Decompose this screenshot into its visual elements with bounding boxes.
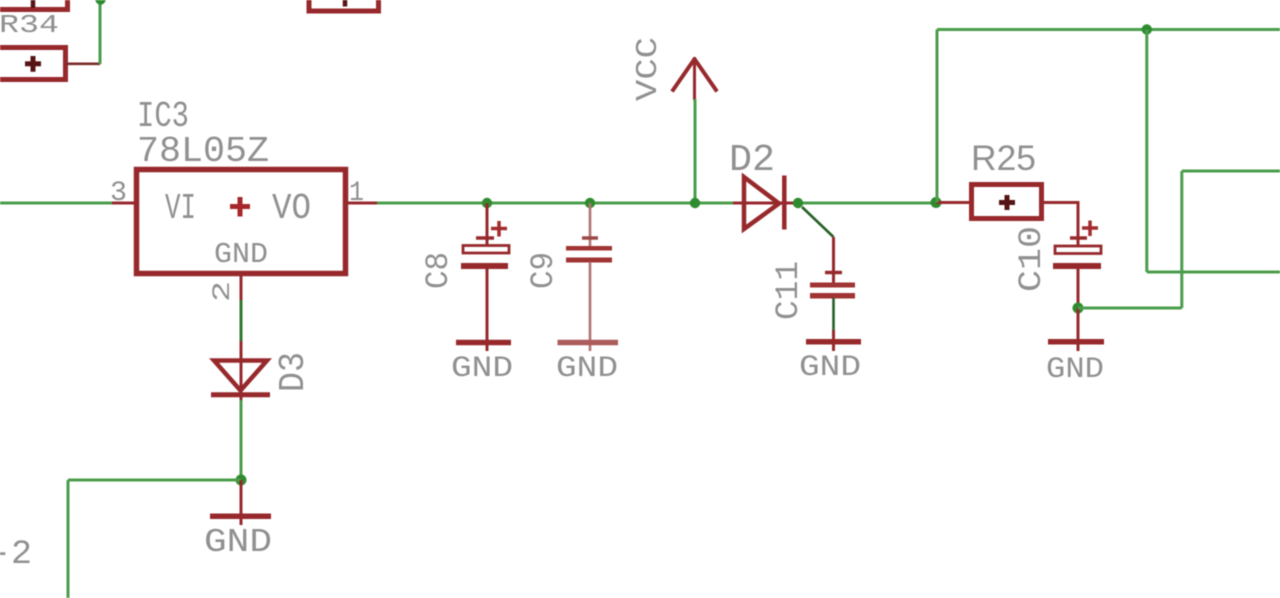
IC3 pin 1 stub — [343, 202, 377, 205]
svg-text:R25: R25 — [971, 139, 1036, 178]
diode D2 anode pin — [733, 202, 744, 205]
svg-text:C8: C8 — [420, 252, 457, 289]
diode D3 cathode bar — [211, 392, 270, 397]
capacitor C10 positive plate — [1055, 246, 1101, 254]
svg-text:VCC: VCC — [631, 37, 666, 101]
capacitor C8 plus mark — [491, 221, 507, 237]
diode D3 triangle — [214, 361, 267, 391]
wire (IC3 pin 2 to D3) — [240, 300, 243, 344]
junction (C10 ground node) — [1073, 303, 1084, 314]
diode D2 triangle — [744, 177, 779, 229]
ground symbol below C9 — [558, 340, 619, 346]
capacitor C11 plate 2 — [810, 293, 855, 299]
resistor R25 left pin — [936, 201, 969, 204]
junction (C8 node) — [482, 198, 492, 208]
capacitor C9 bottom stub — [589, 262, 592, 351]
svg-text:C11: C11 — [770, 261, 807, 320]
svg-text:R34: R34 — [0, 10, 59, 40]
diode D2 pin through triangle — [744, 202, 786, 205]
wire (right riser up) — [1180, 171, 1183, 308]
svg-text:GND: GND — [799, 351, 861, 385]
svg-text:GND: GND — [1046, 353, 1104, 387]
capacitor C10 bottom stub — [1077, 269, 1080, 308]
capacitor C10 negative plate — [1053, 263, 1101, 269]
wire (IC3 pin 1 to D2 anode) — [377, 202, 733, 205]
svg-text:D3: D3 — [273, 352, 314, 392]
svg-text:C10: C10 — [1013, 226, 1050, 292]
ground symbol below C10 — [1077, 308, 1080, 351]
capacitor C10 plus tick on stub — [1070, 236, 1087, 240]
junction (D2 cathode node) — [793, 198, 803, 208]
diode D3 pin stubs — [240, 390, 243, 403]
resistor R34 plus mark (cut off) — [31, 0, 36, 8]
supply symbol VCC arrow — [672, 57, 717, 100]
resistor box (partial, left edge) — [0, 48, 66, 80]
wire (C10 node to right riser) — [1078, 307, 1182, 310]
IC3 pin 3 stub — [112, 202, 139, 205]
svg-text:-2: -2 — [0, 536, 32, 574]
resistor plus mark (cut off) — [343, 0, 348, 7]
wire (vertical from top junction) — [1145, 30, 1148, 273]
capacitor C9 top stub — [589, 203, 592, 246]
voltage regulator IC3 box — [137, 170, 346, 274]
capacitor C8 negative plate — [461, 263, 508, 269]
IC3 pin 2 stub — [240, 272, 243, 303]
capacitor C11 top stub — [832, 237, 835, 284]
capacitor C8 plus tick on stub — [476, 236, 494, 240]
junction (VCC node) — [690, 198, 700, 208]
wire (D2 cathode to R25 junction) — [798, 202, 937, 205]
junction (C9 node) — [585, 198, 595, 208]
resistor R25 plus mark — [999, 195, 1015, 210]
capacitor C9 plus tick on stub — [582, 236, 598, 240]
diode D2 cathode bar — [782, 176, 787, 230]
resistor R25 right pin to C10 — [1044, 203, 1078, 248]
ground symbol below D3 — [240, 480, 243, 525]
capacitor C8 bottom stub — [486, 269, 489, 351]
svg-text:GND: GND — [556, 352, 618, 386]
resistor R34 box (partial, top-left) — [0, 0, 68, 10]
wire (vertical from top net to R25 node) — [936, 30, 939, 203]
capacitor C8 positive plate — [463, 246, 509, 254]
diode D2 cathode pin — [786, 202, 800, 205]
capacitor C9 plate 1 — [566, 246, 612, 251]
svg-text:VO: VO — [272, 188, 311, 229]
IC3 plus mark — [230, 197, 250, 217]
svg-text:GND: GND — [451, 352, 513, 386]
svg-text:VI: VI — [165, 188, 196, 229]
wire (resistor pin to vertical net) — [66, 62, 100, 65]
wire (to right edge, middle) — [1147, 271, 1280, 274]
svg-text:2: 2 — [208, 281, 237, 302]
svg-text:C9: C9 — [525, 252, 562, 289]
junction (D3 ground node) — [236, 475, 247, 486]
wire (C11 to ground) — [832, 298, 835, 336]
svg-text:D2: D2 — [729, 139, 775, 182]
wire (top horizontal net) — [937, 28, 1280, 31]
junction (top-left, clipped) — [95, 0, 105, 5]
capacitor C11 plus tick on stub — [825, 271, 842, 275]
wire (vertical net, top-left) — [99, 0, 102, 64]
junction (R25 left node) — [931, 197, 942, 208]
svg-text:GND: GND — [204, 524, 272, 561]
resistor box (partial, top-center) — [309, 0, 379, 11]
ground symbol below C11 — [832, 330, 835, 351]
diode D3 anode pin through triangle — [240, 341, 243, 396]
ground symbol below C8 — [456, 340, 511, 346]
wire (junction to left corner) — [68, 479, 241, 482]
svg-text:78L05Z: 78L05Z — [137, 131, 269, 172]
wire (to right edge, upper) — [1182, 170, 1280, 173]
capacitor C8 top stub — [486, 203, 489, 246]
junction (top net) — [1142, 24, 1152, 34]
wire (D3 to ground junction) — [240, 400, 243, 480]
wire (diagonal to C11) — [802, 207, 834, 237]
resistor R25 box — [972, 185, 1042, 219]
wire (left edge to IC3 pin 3) — [0, 202, 112, 205]
capacitor C9 plate 2 — [566, 258, 612, 263]
capacitor C11 plate 1 — [810, 283, 855, 288]
wire (VCC to main net) — [694, 99, 697, 203]
svg-text:GND: GND — [214, 238, 268, 271]
wire (down left edge to bottom) — [67, 480, 70, 598]
resistor plus mark — [25, 56, 41, 72]
capacitor C10 plus mark — [1082, 221, 1098, 237]
